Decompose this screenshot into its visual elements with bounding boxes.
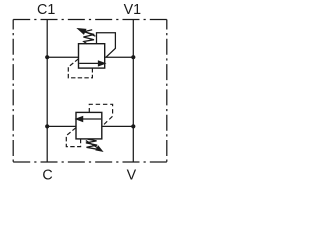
RV2 pilot line (dashed, top-right loop from outlet) xyxy=(89,104,112,124)
node: C line / RV2 inlet junction xyxy=(45,124,49,128)
RV1 spring xyxy=(83,30,94,44)
relief valve RV2 body xyxy=(76,112,102,138)
wire: RV1 inlet from C line xyxy=(47,56,78,58)
svg-text:V: V xyxy=(127,168,137,184)
RV1 flow arrow xyxy=(79,61,105,66)
wire: V line (right vertical V1 to V) xyxy=(132,20,134,163)
relief valve RV1 body xyxy=(79,44,105,68)
RV1 pilot line (dashed, bottom-left loop) xyxy=(68,59,92,78)
svg-text:C: C xyxy=(42,168,52,184)
RV1 spring adjustment arrow xyxy=(78,29,95,36)
svg-text:V1: V1 xyxy=(124,2,142,18)
wire: RV2 inlet from C line xyxy=(47,125,76,127)
RV2 spring adjustment arrow xyxy=(86,141,102,151)
node: V line / RV1 outlet junction xyxy=(131,55,135,59)
node: V line / RV2 outlet junction xyxy=(131,124,135,128)
enclosure boundary (dash-dot box) xyxy=(13,20,167,163)
svg-text:C1: C1 xyxy=(37,2,55,18)
RV2 flow arrow xyxy=(76,117,101,122)
RV1 drain loop (solid, over top-right to outlet) xyxy=(97,33,116,58)
wire: RV1 outlet to V line xyxy=(105,56,134,58)
wire: RV2 outlet to V line xyxy=(102,125,134,127)
RV2 spring xyxy=(86,139,98,149)
RV2 drain loop (dashed, bottom-left to inlet) xyxy=(66,128,80,147)
node: C line / RV1 inlet junction xyxy=(45,55,49,59)
wire: C line (left vertical C1 to C) xyxy=(46,20,48,163)
